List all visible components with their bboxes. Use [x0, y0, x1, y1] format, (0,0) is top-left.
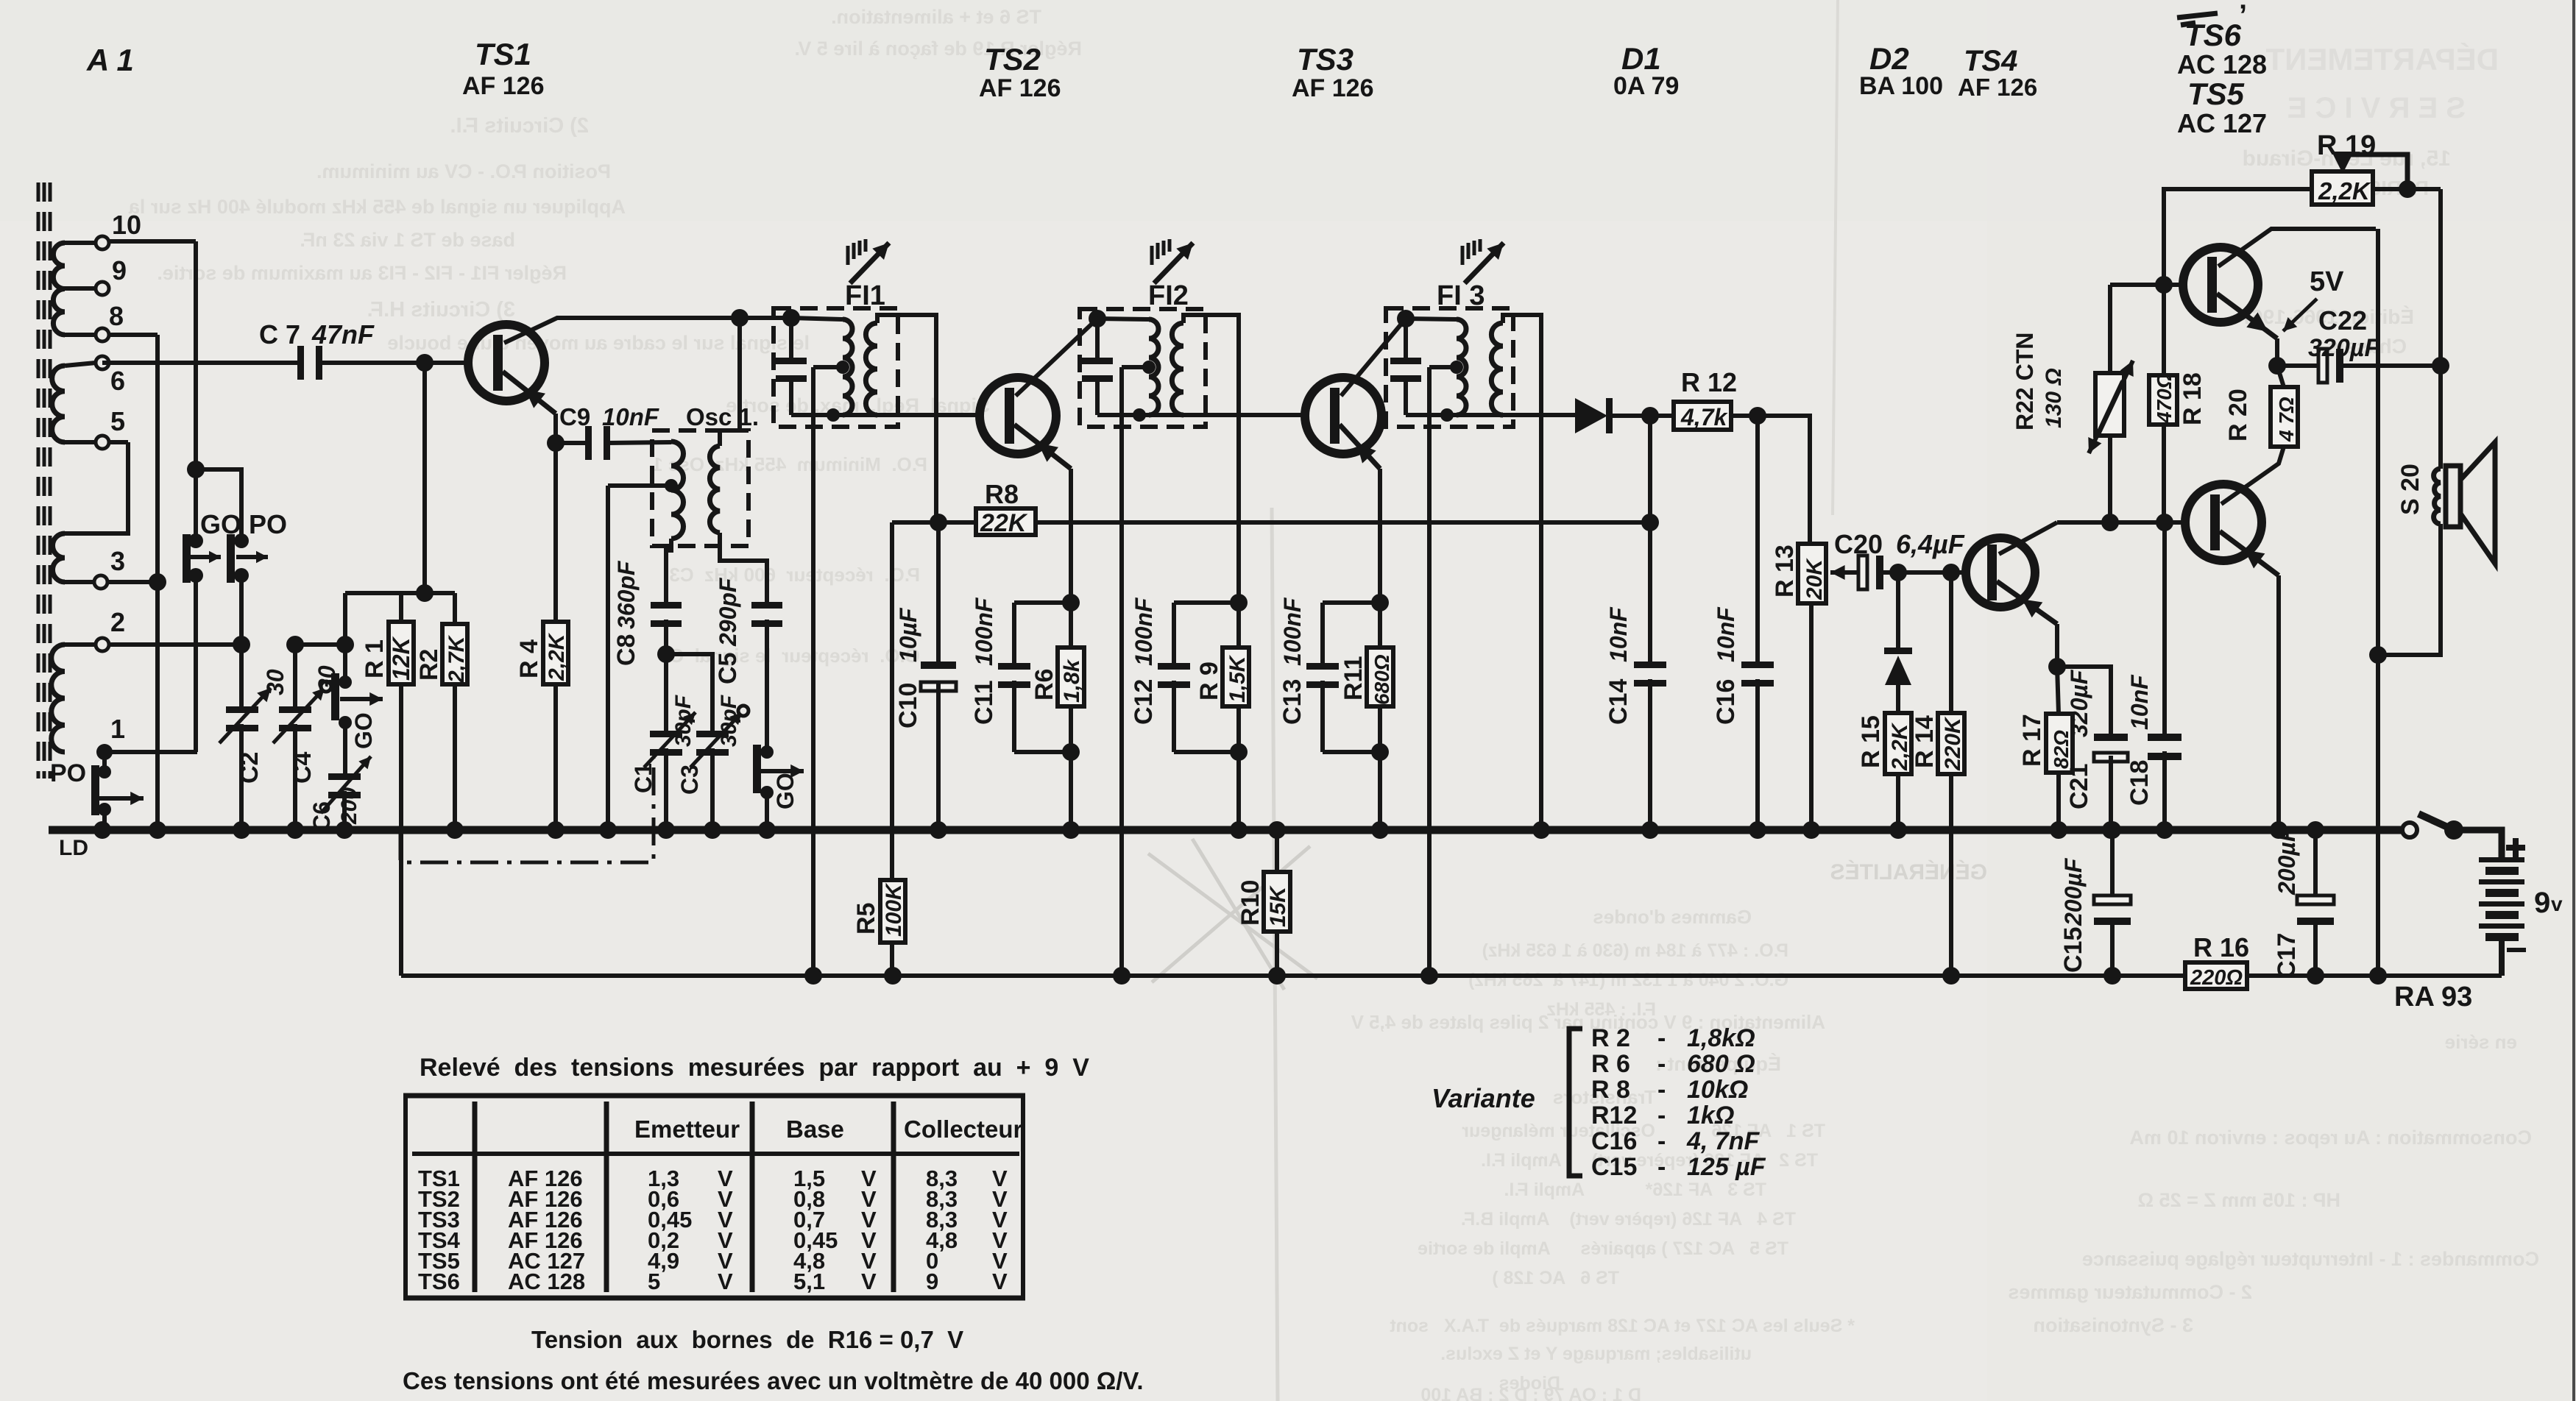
svg-text:6: 6 [110, 366, 125, 396]
antenna ferrite rod [38, 182, 50, 778]
label 5V [2283, 266, 2344, 331]
svg-text:R 14: R 14 [1911, 715, 1939, 768]
svg-text:1,5K: 1,5K [1225, 654, 1250, 703]
label AC128 [2177, 49, 2267, 79]
node R11 bottom [1371, 743, 1389, 761]
node R14 bottom [1942, 967, 1960, 985]
svg-text:GÉNÉRALITÉS: GÉNÉRALITÉS [1830, 859, 1987, 884]
node C17 bus [2307, 821, 2324, 839]
node C1 bus [657, 821, 675, 839]
svg-text:D1: D1 [1621, 41, 1661, 76]
label R20 [2224, 389, 2298, 442]
bus LD line [49, 826, 2402, 834]
wire C13 bottom [1320, 681, 1325, 752]
TS5 base line [2110, 283, 2184, 287]
svg-text:47nF: 47nF [311, 319, 375, 350]
FI1 sec top wire [877, 315, 936, 522]
bracket C21 [2057, 667, 2111, 734]
svg-text:1: 1 [110, 714, 125, 744]
wire R2 bottom [453, 684, 457, 830]
label C4 [289, 665, 340, 784]
capacitor C9 [556, 426, 671, 460]
potentiometer R13 [1798, 544, 1826, 603]
svg-text:GO: GO [350, 712, 377, 749]
svg-text:200: 200 [337, 787, 361, 825]
svg-text:-: - [1657, 1076, 1666, 1104]
wire tap8 to bus [155, 335, 160, 830]
capacitor C7 [297, 346, 322, 380]
wire R2 lead [453, 593, 457, 624]
wire C12 bottom [1172, 681, 1176, 752]
wire R17 top [2057, 667, 2059, 714]
svg-text:AF 126: AF 126 [1958, 74, 2037, 101]
label R14 [1911, 715, 1965, 771]
node R10 bottom [1268, 967, 1286, 985]
svg-text:100nF: 100nF [1130, 597, 1157, 666]
tap 6 on RF line [65, 356, 125, 396]
node FI2 primary bottom [1133, 408, 1146, 422]
antenna coil section 3 [53, 533, 66, 582]
wire AVC corner down [890, 522, 894, 976]
svg-text:TS 3 AF 126* Ampl: TS 3 AF 126* Ampli F.I. [1504, 1180, 1766, 1200]
svg-text:C3: C3 [676, 765, 703, 795]
label C17 [2273, 826, 2301, 979]
antenna coil section 1 [53, 243, 65, 335]
node tap8 bus [149, 821, 166, 839]
FI3 sec top wire [1503, 315, 1541, 830]
label C6 [308, 787, 361, 831]
wire link down to GO2 [343, 593, 347, 645]
node C3 bus [704, 821, 721, 839]
faint scribble [1148, 839, 1317, 990]
node R11 bus [1371, 821, 1389, 839]
svg-text:2,2K: 2,2K [1888, 722, 1912, 771]
svg-text:R 17: R 17 [2018, 714, 2046, 767]
node FI3 return bus [1532, 821, 1550, 839]
svg-text:20K: 20K [1802, 558, 1827, 600]
resistor R5 [880, 880, 905, 943]
transformer FI2 box [1080, 309, 1206, 427]
R8 value [980, 509, 1028, 537]
svg-text:S 20: S 20 [2396, 464, 2424, 515]
label R22 [2011, 333, 2066, 430]
svg-text:320µF: 320µF [2066, 669, 2092, 737]
label R4 [515, 632, 569, 681]
svg-text:’: ’ [2239, 0, 2247, 32]
wire R20 top [2277, 366, 2284, 387]
label C13 [1278, 597, 1306, 725]
svg-text:C17: C17 [2273, 933, 2301, 979]
transistor TS5 [2183, 247, 2258, 322]
node FI2 tap bottom [1113, 967, 1130, 985]
svg-text:9: 9 [926, 1269, 938, 1294]
bracket C12 R9 bottom [1174, 750, 1239, 754]
resistor R4 [543, 622, 568, 684]
transistor TS4 [1966, 538, 2035, 607]
svg-text:125 µF: 125 µF [1687, 1153, 1766, 1181]
svg-text:1,8k: 1,8k [1060, 659, 1084, 703]
battery bottom wire [2499, 941, 2505, 976]
R13 wiper arrow [1830, 565, 1860, 580]
svg-text:C21: C21 [2065, 764, 2093, 809]
wire GO2 bottom to C6 [343, 723, 347, 773]
bracket C11 R6 top [1014, 603, 1071, 663]
svg-text:Tension aux bornes de R16: Tension aux bornes de R16 = 0,7 V [531, 1326, 963, 1353]
long vertical to battery minus rail [2376, 229, 2380, 976]
svg-text:10nF: 10nF [1713, 606, 1739, 662]
resistor R1 [389, 622, 414, 684]
label TS6 header [2177, 0, 2247, 52]
svg-text:R 20: R 20 [2224, 389, 2252, 441]
label AC127 [2177, 108, 2267, 138]
diode D2 [1884, 648, 1912, 713]
node tap2 R1 branch [336, 636, 354, 653]
wire FI2 tap down [1119, 367, 1124, 976]
label 9v [2534, 887, 2563, 919]
label PO switch [249, 509, 287, 539]
resistor R18 [2149, 285, 2177, 522]
wire R19 left [2164, 189, 2312, 285]
svg-text:4 7Ω: 4 7Ω [2275, 397, 2298, 442]
transformer FI3 box [1386, 308, 1513, 427]
node R10 bus [1268, 821, 1286, 839]
capacitor C3 [690, 706, 749, 830]
node R5 bottom [884, 967, 902, 985]
svg-text:P.O. récepteur 600 kHz C3: P.O. récepteur 600 kHz C3 [669, 564, 920, 586]
svg-text:Consommation : Au repos : envi: Consommation : Au repos : environ 10 mA [2129, 1127, 2532, 1149]
resistor R16 [2185, 962, 2247, 989]
FI1 tuning arrow [848, 239, 889, 283]
osc primary tap [608, 479, 678, 492]
label GO2 [350, 712, 377, 749]
transistor TS3 [1305, 377, 1381, 454]
tap 2 [65, 607, 241, 651]
wire C14 top [1648, 522, 1652, 662]
svg-text:TS6: TS6 [2184, 18, 2242, 52]
label C12 [1130, 597, 1158, 725]
svg-text:100nF: 100nF [971, 597, 997, 666]
AVC line [892, 520, 1650, 525]
svg-text:base de TS 1 via 23 nF.: base de TS 1 via 23 nF. [300, 229, 515, 251]
svg-text:Base: Base [786, 1116, 844, 1143]
osc primary coil [671, 441, 684, 539]
label R2 [415, 634, 469, 684]
svg-text:GO: GO [772, 773, 799, 809]
capacitor C14 [1634, 662, 1666, 687]
label R11 [1340, 654, 1393, 705]
wire R1 bottom [399, 684, 403, 976]
speaker S20 frame [2446, 442, 2495, 564]
node PO-C2 [233, 636, 250, 653]
svg-text:C18: C18 [2126, 760, 2154, 806]
label C21 [2065, 669, 2093, 809]
svg-text:R 2: R 2 [1591, 1024, 1630, 1052]
label R15 [1857, 715, 1912, 771]
wire C16 top [1755, 416, 1760, 662]
R19 value [2318, 177, 2371, 205]
switch PO [227, 533, 268, 583]
svg-text:1kΩ: 1kΩ [1687, 1102, 1734, 1129]
node C22 out [2432, 357, 2449, 375]
svg-text:R 13: R 13 [1771, 545, 1799, 597]
svg-text:2,7K: 2,7K [445, 634, 469, 684]
node R4 bus [547, 821, 565, 839]
svg-text:AF 126: AF 126 [979, 74, 1061, 102]
node R2 bus [446, 821, 464, 839]
label C22 [2308, 305, 2380, 362]
label R13 [1771, 545, 1827, 600]
gang linkage [400, 758, 654, 862]
svg-text:12K: 12K [388, 635, 414, 681]
label R6 [1030, 659, 1084, 703]
svg-text:AF 126: AF 126 [1292, 74, 1374, 102]
wire GO3 to bus [765, 792, 769, 830]
FI2 bottom link [1097, 413, 1183, 417]
capacitor C11 [998, 663, 1030, 688]
svg-text:C15: C15 [2059, 927, 2087, 973]
wire to bus [1069, 752, 1073, 830]
node C4 bus [286, 821, 304, 839]
wire C10 top [936, 522, 941, 662]
svg-text:C22: C22 [2318, 305, 2367, 336]
wire R6 top [1069, 603, 1073, 648]
node GO-PO feed [187, 461, 205, 478]
svg-text:Collecteur: Collecteur [904, 1116, 1023, 1143]
svg-text:Variante: Variante [1432, 1083, 1535, 1113]
node R9 bottom [1230, 743, 1248, 761]
speaker feed wire [2438, 189, 2443, 469]
label C16 [1712, 606, 1740, 725]
wire PO switch bottom [239, 575, 244, 645]
label A1 [86, 43, 134, 77]
svg-text:utilisables; marquage Y et Z e: utilisables; marquage Y et Z exclus. [1440, 1344, 1752, 1364]
wire osc sec top [720, 318, 740, 446]
node PO2 bus [93, 821, 111, 839]
label C5 [714, 577, 742, 684]
wire R15 bottom [1896, 774, 1900, 830]
svg-text:C14: C14 [1604, 679, 1632, 725]
label C10 [894, 607, 922, 728]
osc secondary coil [710, 446, 720, 533]
node C8-C1 [657, 645, 675, 663]
antenna coil section 2 [52, 366, 65, 442]
node R18-C18 [2156, 514, 2173, 531]
node osc tap bus [599, 821, 617, 839]
transformer FI1 box [774, 308, 898, 427]
FI1 capacitor [776, 358, 807, 382]
svg-text:2,2K: 2,2K [545, 632, 569, 681]
TS1 emitter wire [503, 372, 556, 443]
switch contact [2402, 823, 2417, 837]
TS5 collector wire [2218, 229, 2376, 266]
wire FI3 tap down [1427, 367, 1432, 976]
node FI1 top [782, 309, 800, 327]
label GO switch [200, 509, 241, 539]
svg-text:C2: C2 [236, 752, 263, 784]
label FI1 [845, 280, 885, 311]
FI3 tuning arrow [1462, 239, 1504, 283]
thermistor R22 [2088, 285, 2133, 522]
label Osc1 [686, 403, 759, 430]
wire R11 top [1378, 603, 1382, 648]
volume feed wire [1758, 416, 1810, 544]
svg-text:3) Circuits H.F.: 3) Circuits H.F. [367, 298, 515, 322]
wire switch to battery [2454, 830, 2502, 859]
resistor R12 [1650, 402, 1758, 430]
svg-text:Gammes d'ondes: Gammes d'ondes [1593, 906, 1752, 928]
label TS5 header [2187, 77, 2245, 111]
svg-text:HP : 105 mm Z = 25 Ω: HP : 105 mm Z = 25 Ω [2137, 1189, 2340, 1211]
wire osc primary bottom [666, 539, 671, 602]
svg-text:-: - [1657, 1127, 1666, 1155]
wire R4 top [553, 443, 558, 622]
bracket C13 R11 top [1323, 603, 1380, 663]
svg-text:LD: LD [59, 836, 88, 860]
svg-text:TS 6 et + alimentation.: TS 6 et + alimentation. [831, 6, 1041, 28]
svg-text:AC 128: AC 128 [2177, 49, 2267, 79]
wire R9 bottom [1236, 706, 1241, 752]
battery 9V [2479, 857, 2524, 941]
svg-text:TS4: TS4 [1964, 45, 2017, 77]
svg-text:2 - Commutateur gammes: 2 - Commutateur gammes [2008, 1281, 2252, 1303]
resistor R15 [1885, 713, 1911, 774]
battery minus [2507, 948, 2526, 952]
svg-text:220Ω: 220Ω [2190, 966, 2243, 990]
FI1 primary [791, 318, 852, 415]
wire R14 bottom [1949, 774, 1953, 976]
label TS4 [1958, 45, 2037, 101]
node C17 bottom [2307, 967, 2324, 985]
node R12 out [1749, 407, 1766, 425]
svg-text:TS 6 AC 128 ): TS 6 AC 128 ) [1492, 1268, 1619, 1288]
node TS5 emitter [2268, 357, 2286, 375]
speaker return wire [2378, 524, 2441, 655]
node speaker bottom [2369, 967, 2387, 985]
node R19 out [2399, 180, 2416, 198]
label C8 [612, 560, 640, 666]
svg-text:R 18: R 18 [2179, 372, 2207, 425]
FI3 secondary [1491, 323, 1503, 415]
wire R17 bottom [2056, 773, 2061, 830]
svg-text:C16: C16 [1591, 1127, 1637, 1155]
svg-text:10µF: 10µF [895, 607, 921, 662]
antenna coil section 4 [52, 645, 65, 752]
svg-text:360pF: 360pF [613, 560, 640, 629]
svg-text:8: 8 [109, 301, 124, 331]
svg-text:320µF: 320µF [2308, 334, 2380, 362]
svg-text:V: V [718, 1269, 733, 1294]
TS6 collector wire [2221, 447, 2284, 504]
svg-text:1,8kΩ: 1,8kΩ [1687, 1024, 1755, 1052]
svg-text:Ces tensions ont été mesurées: Ces tensions ont été mesurées avec un vo… [403, 1367, 1144, 1394]
wire osc tap to bus [606, 486, 610, 830]
svg-text:100K: 100K [882, 882, 906, 937]
resistor R14 [1938, 713, 1964, 774]
capacitor C16 [1741, 662, 1774, 687]
capacitor C17 [2297, 830, 2334, 976]
node TS4 emitter junction [2048, 658, 2066, 675]
FI1 cap wire bottom [789, 375, 793, 415]
node FI3 primary bottom [1440, 408, 1454, 422]
node R9 bus [1230, 821, 1248, 839]
node TS5 base [2155, 276, 2173, 294]
svg-text:Emetteur: Emetteur [634, 1116, 740, 1143]
capacitor C18 [2148, 734, 2182, 760]
capacitor C15 [2094, 830, 2131, 976]
svg-text:TS1: TS1 [475, 37, 531, 71]
svg-text:R12: R12 [1591, 1102, 1637, 1129]
svg-text:220K: 220K [1941, 716, 1965, 771]
svg-text:V: V [992, 1269, 1008, 1294]
svg-text:en série: en série [2445, 1031, 2517, 1053]
wire R9 top [1236, 603, 1241, 648]
svg-text:C16: C16 [1712, 679, 1740, 725]
svg-text:D 1 : OA 79 ; D 2 : BA 100: D 1 : OA 79 ; D 2 : BA 100 [1420, 1385, 1641, 1401]
node R6 bottom [1062, 743, 1080, 761]
node R22 bottom [2101, 514, 2119, 531]
svg-text:C13: C13 [1278, 679, 1306, 725]
svg-text:2,2K: 2,2K [2318, 177, 2371, 205]
label R18 [2153, 372, 2207, 425]
svg-text:TS 1 AF 126 Oscill: TS 1 AF 126 Oscillateur mélangeur [1462, 1121, 1825, 1141]
label C2 [236, 669, 289, 784]
wire to PO switch top [196, 469, 241, 538]
node C10 bus [930, 821, 947, 839]
TS4 emitter wire [1997, 581, 2057, 667]
label C1 [630, 695, 696, 793]
TS4 collector wire [1999, 522, 2057, 554]
svg-text:R 15: R 15 [1857, 715, 1885, 768]
svg-text:BA 100: BA 100 [1859, 72, 1943, 100]
label TS2 [979, 42, 1061, 102]
RF signal line [102, 361, 468, 365]
capacitor C1 [644, 654, 696, 830]
svg-text:C11: C11 [970, 681, 998, 726]
svg-text:290pF: 290pF [715, 577, 741, 647]
label PO2 [50, 759, 86, 787]
svg-text:10nF: 10nF [1605, 606, 1632, 662]
label C15 [2059, 857, 2087, 973]
label C7 [259, 319, 375, 350]
node R13 bus [1802, 821, 1820, 839]
transistor TS6 [2185, 484, 2262, 561]
switch GO3 [753, 745, 804, 799]
tap 3 [65, 546, 158, 589]
FI2 capacitor [1082, 319, 1113, 415]
wire C8 bottom [664, 620, 668, 654]
label S20 [2396, 464, 2424, 515]
svg-text:-: - [1657, 1050, 1666, 1078]
svg-text:PO: PO [249, 509, 287, 539]
node FI1 primary bottom [827, 408, 840, 422]
node C4 tap2 [286, 636, 304, 653]
svg-text:PO: PO [50, 759, 86, 787]
svg-text:R2: R2 [415, 649, 443, 681]
node C16 bus [1749, 821, 1766, 839]
resistor R6 [1058, 648, 1084, 706]
tap 9 [65, 255, 127, 295]
svg-text:V: V [861, 1269, 877, 1294]
node R17 bus [2050, 821, 2067, 839]
svg-text:R 8: R 8 [1591, 1076, 1630, 1104]
label TS3 [1292, 42, 1374, 102]
node FI3 top [1397, 310, 1415, 327]
svg-text:* Seuls les AC 127 et AC 128 m: * Seuls les AC 127 et AC 128 marqués de … [1390, 1316, 1855, 1336]
wire tap1 down [102, 752, 107, 772]
note R16 voltage [531, 1326, 963, 1353]
svg-text:470Ω: 470Ω [2153, 372, 2176, 424]
wire C5 to GO3 [765, 620, 769, 752]
